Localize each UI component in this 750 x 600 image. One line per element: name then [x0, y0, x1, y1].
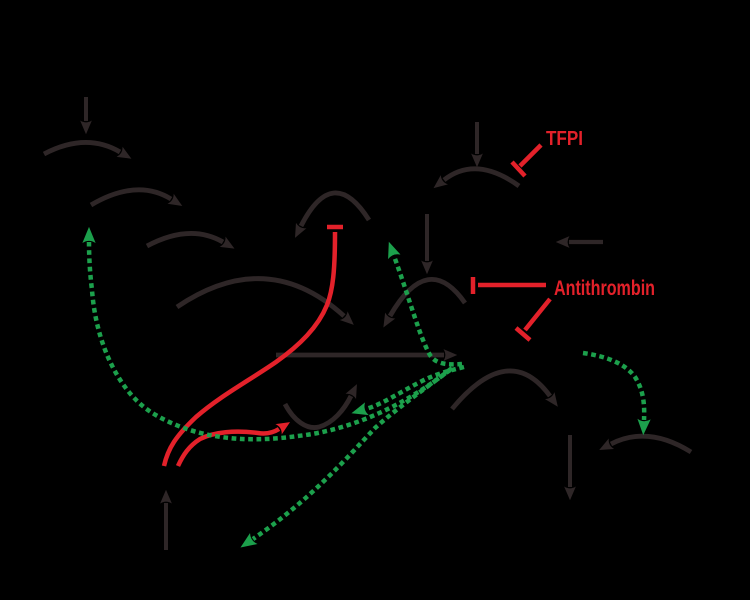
red inhibit line TFPI	[520, 145, 541, 166]
red T-bar TFPI	[512, 162, 525, 176]
red T-bar on VIIIa	[327, 225, 343, 230]
arc X to Xa right	[390, 279, 465, 316]
red T-bar antithrombin 1	[471, 277, 476, 294]
arc IX to IXa	[147, 233, 223, 246]
arc VII to VIIa	[444, 169, 519, 186]
swoosh V to Va	[285, 396, 351, 428]
svg-text:TFPI: TFPI	[546, 127, 583, 150]
svg-text:Antithrombin: Antithrombin	[554, 277, 655, 300]
red curve APC inhibits VIIIa	[164, 232, 335, 466]
arc fibrinogen to fibrin	[452, 371, 550, 409]
red inhibit line antithrombin 2	[525, 299, 550, 330]
red inhibit line antithrombin 1	[478, 283, 546, 288]
arc VIII to VIIIa	[301, 193, 369, 226]
arc XII to XIIa	[44, 142, 120, 154]
arrow trauma left	[569, 240, 603, 244]
arrow down fibrin to clot	[568, 435, 572, 487]
arrow down to VII	[475, 122, 479, 154]
arc XIII to XIIIa	[611, 436, 691, 452]
big arc IXa-VIIIa to X-Xa left	[177, 279, 344, 316]
arrow down to XII	[84, 97, 88, 121]
arrow down TF-VIIa to X	[425, 214, 429, 261]
green feedback thrombin to XI	[89, 242, 452, 439]
green feedback thrombin to VIII	[394, 256, 462, 364]
red curve APC inhibits Va	[178, 429, 279, 466]
green feedback thrombin to XIII	[583, 353, 644, 420]
arrow prothrombin to thrombin	[276, 353, 444, 358]
green feedback thrombin to protein C	[253, 370, 450, 539]
red T-bar antithrombin 2	[516, 328, 530, 340]
arrow up protein C	[164, 503, 168, 550]
arc XI to XIa	[91, 190, 171, 205]
green feedback thrombin to V	[366, 367, 464, 409]
